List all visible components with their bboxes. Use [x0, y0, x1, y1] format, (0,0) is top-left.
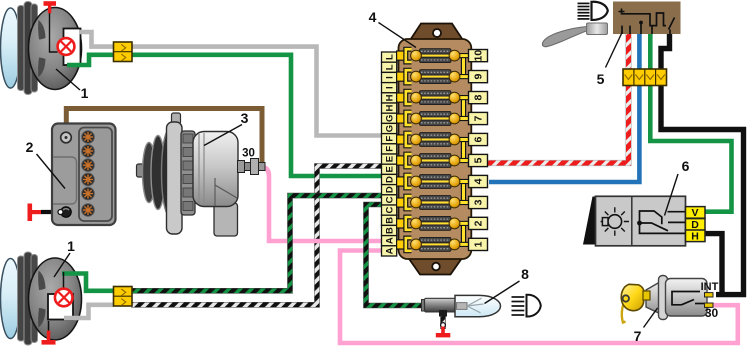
- svg-text:I: I: [385, 76, 396, 79]
- svg-text:5: 5: [473, 157, 485, 163]
- svg-text:1: 1: [67, 238, 75, 254]
- svg-text:INT: INT: [701, 281, 719, 293]
- svg-text:5: 5: [597, 71, 605, 87]
- svg-text:4: 4: [473, 178, 485, 184]
- svg-text:A: A: [385, 237, 396, 244]
- svg-text:3: 3: [241, 110, 249, 126]
- svg-text:D: D: [385, 176, 396, 183]
- svg-text:B: B: [385, 217, 396, 224]
- svg-text:V: V: [691, 207, 698, 219]
- svg-text:L: L: [385, 54, 396, 60]
- svg-text:H: H: [691, 230, 699, 242]
- svg-text:F: F: [385, 146, 396, 152]
- svg-text:9: 9: [473, 74, 485, 80]
- svg-text:L: L: [385, 64, 396, 70]
- svg-text:H: H: [385, 94, 396, 101]
- svg-text:10: 10: [473, 50, 485, 62]
- svg-text:F: F: [385, 136, 396, 142]
- svg-text:D: D: [385, 186, 396, 193]
- svg-text:I: I: [385, 86, 396, 89]
- svg-text:30: 30: [705, 306, 719, 320]
- svg-text:E: E: [385, 166, 396, 172]
- svg-text:B: B: [385, 227, 396, 234]
- svg-text:C: C: [385, 207, 396, 214]
- svg-text:A: A: [385, 247, 396, 254]
- svg-text:8: 8: [473, 94, 485, 100]
- svg-text:4: 4: [369, 9, 377, 25]
- svg-text:H: H: [385, 105, 396, 112]
- svg-text:6: 6: [473, 136, 485, 142]
- svg-text:G: G: [385, 115, 396, 122]
- svg-text:G: G: [385, 125, 396, 132]
- svg-text:D: D: [691, 219, 699, 231]
- svg-text:E: E: [385, 156, 396, 162]
- svg-text:6: 6: [682, 158, 690, 174]
- svg-text:7: 7: [634, 328, 642, 344]
- svg-text:7: 7: [473, 115, 485, 121]
- svg-text:30: 30: [242, 148, 255, 160]
- svg-text:2: 2: [26, 139, 34, 155]
- svg-text:2: 2: [473, 220, 485, 226]
- svg-text:8: 8: [521, 266, 529, 282]
- svg-text:C: C: [385, 196, 396, 203]
- svg-text:1: 1: [473, 241, 485, 247]
- svg-text:3: 3: [473, 199, 485, 205]
- svg-text:1: 1: [81, 85, 89, 101]
